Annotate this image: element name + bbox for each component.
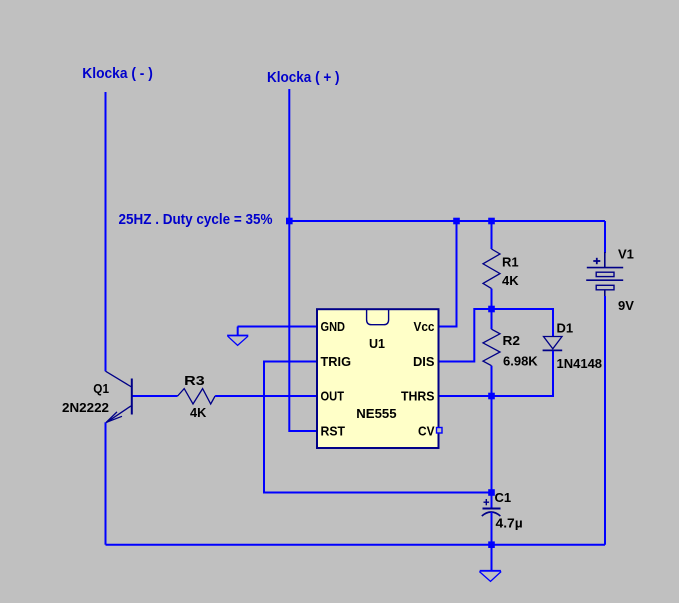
svg-text:U1: U1: [369, 337, 385, 351]
ground near GND pin: [227, 327, 248, 346]
wire RST riser: [289, 221, 317, 431]
wire Klocka(+) vertical: [288, 89, 290, 221]
battery V1: [604, 221, 606, 253]
wire Klocka(-) vertical: [105, 92, 107, 371]
svg-text:D1: D1: [557, 321, 574, 336]
svg-text:THRS: THRS: [401, 390, 435, 404]
svg-text:V1: V1: [618, 247, 634, 262]
svg-text:Q1: Q1: [93, 381, 109, 396]
svg-text:R2: R2: [503, 333, 521, 348]
svg-text:2N2222: 2N2222: [62, 400, 109, 415]
svg-text:TRIG: TRIG: [321, 355, 352, 369]
wire OUT left of R3: [132, 395, 178, 397]
svg-text:CV: CV: [418, 425, 435, 439]
junction at bus / R1: [488, 218, 495, 225]
svg-text:4K: 4K: [190, 405, 207, 420]
junction R1/R2/DIS/D1 node: [488, 306, 495, 313]
wire R1 top: [491, 221, 493, 249]
wire GND pin to ground: [238, 326, 318, 328]
svg-text:4K: 4K: [502, 273, 519, 288]
svg-text:Klocka ( + ): Klocka ( + ): [267, 69, 340, 86]
svg-text:1N4148: 1N4148: [557, 356, 603, 371]
diode D1: [543, 337, 563, 351]
svg-text:OUT: OUT: [321, 390, 345, 404]
svg-text:DIS: DIS: [413, 355, 435, 369]
transistor Q1: [106, 371, 132, 423]
svg-text:25HZ . Duty cycle = 35%: 25HZ . Duty cycle = 35%: [119, 211, 273, 228]
IC U1 NE555: [317, 309, 439, 448]
wire Vcc riser: [439, 221, 457, 327]
wire THRS node down to C1: [491, 396, 493, 493]
resistor R3: [178, 389, 216, 404]
svg-text:9V: 9V: [618, 298, 634, 313]
wire OUT right of R3: [215, 395, 317, 397]
wire emitter down: [105, 422, 107, 544]
junction at bus / Klocka+: [286, 218, 293, 225]
wire TRIG loop: [264, 362, 492, 493]
junction C1 top node: [488, 489, 495, 496]
capacitor C1: [491, 493, 493, 509]
svg-text:NE555: NE555: [356, 407, 396, 421]
svg-text:R1: R1: [502, 255, 519, 270]
svg-text:4.7µ: 4.7µ: [496, 516, 523, 531]
wire top bus: [289, 220, 605, 222]
CV unconnected pin marker: [437, 428, 443, 434]
wire diode branch top: [492, 309, 554, 336]
wire DIS loop: [439, 309, 492, 362]
junction bottom rail / C1: [488, 541, 495, 548]
svg-text:6.98K: 6.98K: [503, 354, 538, 369]
wire bottom rail: [106, 544, 606, 546]
junction at bus / Vcc riser: [453, 218, 460, 225]
svg-text:RST: RST: [321, 425, 346, 439]
wire diode bottom to THRS: [439, 351, 554, 396]
svg-text:Klocka ( - ): Klocka ( - ): [82, 65, 153, 82]
svg-text:R3: R3: [184, 373, 205, 388]
resistor R1: [483, 249, 500, 289]
svg-text:Vcc: Vcc: [414, 320, 435, 334]
svg-text:C1: C1: [495, 490, 512, 505]
resistor R2: [491, 309, 493, 329]
wire R1 bottom: [491, 289, 493, 309]
junction THRS node: [488, 393, 495, 400]
ground below C1: [479, 545, 501, 581]
svg-text:GND: GND: [321, 320, 346, 334]
